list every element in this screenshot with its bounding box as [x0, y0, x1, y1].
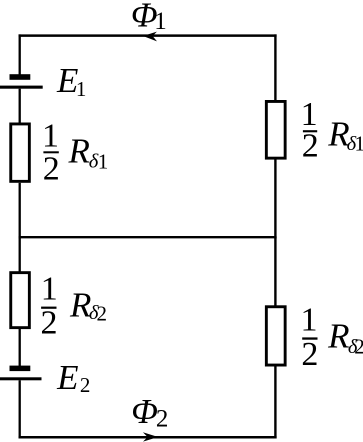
label 1/2 Rdelta1 right: fraction bar [303, 130, 317, 132]
label 1/2 Rdelta1 left: fraction bar [43, 151, 58, 153]
wire right segment: resistor Rd2 right to bottom corner [274, 365, 276, 438]
svg-text:2: 2 [354, 335, 363, 359]
battery E2 thin long plate [0, 377, 42, 380]
wire left segment: resistor Rd1 to middle node [19, 183, 21, 239]
label E1 [56, 61, 86, 101]
label 1/2 Rdelta2 left: R with subscript delta-2 [69, 285, 107, 325]
wire left segment: battery E1 to resistor Rd1 [19, 89, 21, 124]
label 1/2 Rdelta2 right: R with subscript delta-2 [327, 317, 363, 359]
svg-text:1: 1 [98, 149, 109, 173]
label 1/2 Rdelta2 right: fraction denominator 2 [301, 336, 318, 373]
wire right segment: resistor Rd1 right to middle node [274, 158, 276, 238]
svg-text:2: 2 [43, 150, 60, 187]
resistor 1/2 Rdelta2 right (rectangle) [266, 307, 285, 365]
svg-text:1: 1 [154, 8, 167, 35]
resistor 1/2 Rdelta1 right (rectangle) [266, 101, 285, 158]
wire top horizontal [19, 34, 277, 37]
wire left segment: top corner to battery E1 [19, 34, 21, 74]
svg-text:1: 1 [301, 302, 318, 339]
svg-text:2: 2 [302, 128, 319, 165]
svg-text:1: 1 [354, 131, 363, 155]
svg-text:1: 1 [76, 77, 87, 101]
label 1/2 Rdelta1 right: fraction numerator 1 [301, 96, 318, 133]
svg-text:1: 1 [41, 270, 58, 307]
wire right segment: top corner to resistor Rd1 right [274, 34, 276, 101]
svg-text:2: 2 [301, 336, 318, 373]
battery E2 thick short plate [10, 366, 31, 372]
wire right segment: middle node to resistor Rd2 right [274, 237, 276, 307]
svg-text:R: R [327, 317, 349, 356]
label 1/2 Rdelta2 right: fraction numerator 1 [301, 302, 318, 339]
label 1/2 Rdelta2 left: fraction denominator 2 [41, 305, 58, 342]
wire bottom horizontal [19, 436, 277, 439]
arrowhead flux Phi1 (pointing left) [143, 32, 157, 42]
wire left segment: middle node to resistor Rd2 [19, 237, 21, 272]
svg-text:E: E [56, 358, 78, 397]
wire left segment: battery E2 to bottom corner [19, 380, 21, 438]
svg-text:2: 2 [41, 305, 58, 342]
svg-text:Φ: Φ [131, 392, 158, 431]
label E2 [56, 358, 90, 397]
wire middle horizontal [19, 236, 277, 238]
label 1/2 Rdelta1 right: fraction denominator 2 [302, 128, 319, 165]
label Phi2 [131, 392, 168, 432]
svg-text:R: R [68, 132, 90, 171]
label 1/2 Rdelta2 left: fraction numerator 1 [41, 270, 58, 307]
svg-text:2: 2 [156, 405, 169, 432]
label 1/2 Rdelta2 left: fraction bar [41, 307, 56, 309]
label 1/2 Rdelta1 left: R with subscript delta-1 [68, 132, 109, 174]
label Phi1 [131, 0, 167, 35]
label 1/2 Rdelta1 left: fraction denominator 2 [43, 150, 60, 187]
svg-text:1: 1 [42, 118, 59, 155]
svg-text:2: 2 [80, 373, 91, 397]
resistor 1/2 Rdelta1 left (rectangle) [11, 124, 30, 181]
resistor 1/2 Rdelta2 left (rectangle) [11, 273, 30, 328]
label 1/2 Rdelta1 left: fraction numerator 1 [42, 118, 59, 155]
battery E1 thick short plate [10, 74, 31, 80]
arrowhead flux Phi2 (pointing right) [143, 432, 158, 441]
wire left segment: resistor Rd2 to battery E2 [19, 329, 21, 367]
battery E1 thin long plate [0, 86, 43, 89]
label 1/2 Rdelta2 right: fraction bar [302, 337, 317, 339]
label 1/2 Rdelta1 right: R with subscript delta-1 [327, 114, 363, 155]
svg-text:2: 2 [97, 302, 108, 326]
